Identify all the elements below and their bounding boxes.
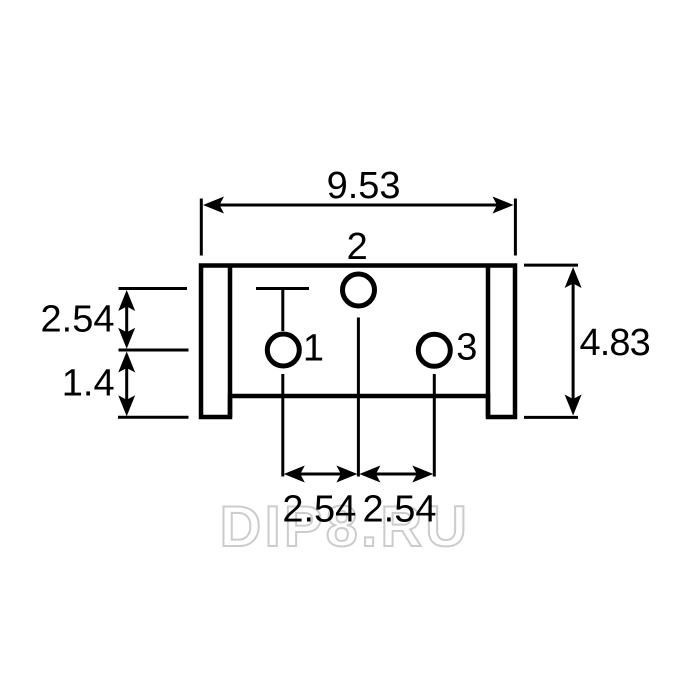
svg-text:3: 3	[456, 327, 477, 369]
svg-text:1: 1	[303, 328, 324, 370]
svg-text:9.53: 9.53	[327, 165, 401, 207]
svg-text:1.4: 1.4	[62, 363, 115, 405]
svg-text:2.54: 2.54	[41, 299, 115, 341]
svg-text:4.83: 4.83	[580, 322, 650, 364]
svg-text:2: 2	[347, 226, 368, 268]
svg-text:2.54: 2.54	[282, 488, 356, 530]
svg-text:2.54: 2.54	[363, 488, 437, 530]
